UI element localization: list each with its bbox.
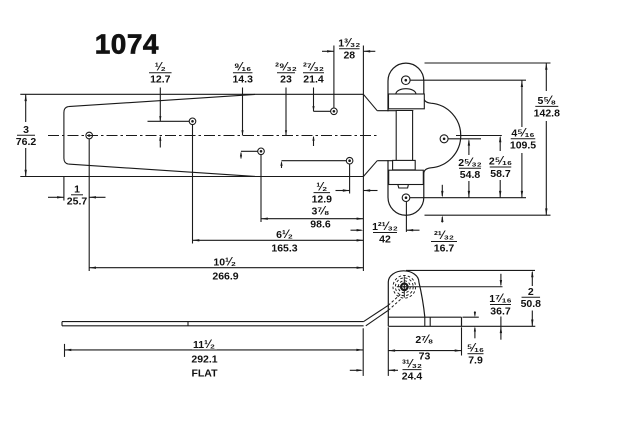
svg-text:142.8: 142.8 — [534, 107, 560, 119]
svg-text:23: 23 — [280, 74, 292, 86]
svg-text:3⁷⁄₈: 3⁷⁄₈ — [312, 206, 330, 218]
svg-text:109.5: 109.5 — [510, 140, 536, 152]
svg-text:2⁷⁄₈: 2⁷⁄₈ — [415, 334, 433, 346]
svg-text:2⁵⁄₁₆: 2⁵⁄₁₆ — [489, 156, 512, 168]
svg-text:42: 42 — [379, 233, 391, 245]
svg-text:24.4: 24.4 — [402, 371, 423, 383]
svg-text:10¹⁄₂: 10¹⁄₂ — [213, 257, 236, 269]
svg-text:³¹⁄₃₂: ³¹⁄₃₂ — [402, 358, 422, 370]
svg-text:14.3: 14.3 — [232, 74, 253, 86]
svg-text:292.1: 292.1 — [191, 354, 217, 366]
svg-text:98.6: 98.6 — [310, 219, 331, 231]
svg-text:¹⁄₂: ¹⁄₂ — [155, 61, 166, 73]
svg-text:54.8: 54.8 — [460, 169, 481, 181]
svg-text:7.9: 7.9 — [468, 355, 483, 367]
svg-text:FLAT: FLAT — [191, 368, 218, 380]
svg-text:1⁷⁄₁₆: 1⁷⁄₁₆ — [489, 293, 512, 305]
svg-text:50.8: 50.8 — [521, 298, 542, 310]
svg-text:⁵⁄₁₆: ⁵⁄₁₆ — [467, 342, 484, 354]
svg-text:11¹⁄₂: 11¹⁄₂ — [193, 339, 215, 351]
svg-text:12.9: 12.9 — [312, 194, 333, 206]
svg-text:2: 2 — [528, 286, 534, 298]
svg-text:4⁵⁄₁₆: 4⁵⁄₁₆ — [511, 127, 534, 139]
svg-text:16.7: 16.7 — [434, 242, 455, 254]
svg-text:3: 3 — [23, 124, 29, 136]
svg-text:2⁵⁄₃₂: 2⁵⁄₃₂ — [458, 157, 482, 169]
svg-text:1²¹⁄₃₂: 1²¹⁄₃₂ — [372, 221, 398, 233]
svg-text:1³⁄₃₂: 1³⁄₃₂ — [338, 38, 360, 50]
svg-text:1: 1 — [74, 184, 80, 196]
svg-text:¹⁄₂: ¹⁄₂ — [316, 181, 327, 193]
svg-text:25.7: 25.7 — [67, 196, 88, 208]
svg-text:6¹⁄₂: 6¹⁄₂ — [276, 229, 293, 241]
svg-text:⁹⁄₁₆: ⁹⁄₁₆ — [234, 61, 251, 73]
svg-text:165.3: 165.3 — [271, 243, 297, 255]
svg-text:58.7: 58.7 — [490, 168, 511, 180]
svg-text:²¹⁄₃₂: ²¹⁄₃₂ — [434, 230, 454, 242]
svg-text:76.2: 76.2 — [16, 136, 37, 148]
svg-text:5⁵⁄₈: 5⁵⁄₈ — [538, 95, 557, 107]
svg-text:36.7: 36.7 — [490, 305, 511, 317]
svg-text:12.7: 12.7 — [150, 74, 171, 86]
svg-text:1074: 1074 — [95, 28, 159, 59]
svg-text:266.9: 266.9 — [212, 271, 238, 283]
svg-text:28: 28 — [343, 50, 355, 62]
svg-text:²⁹⁄₃₂: ²⁹⁄₃₂ — [275, 61, 297, 73]
svg-text:21.4: 21.4 — [303, 74, 324, 86]
svg-text:²⁷⁄₃₂: ²⁷⁄₃₂ — [303, 61, 324, 73]
